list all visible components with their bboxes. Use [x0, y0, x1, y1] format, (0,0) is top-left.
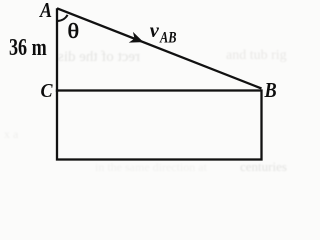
- svg-text:x a: x a: [4, 127, 19, 141]
- svg-text:θ: θ: [68, 19, 80, 42]
- svg-text:AB: AB: [159, 29, 176, 47]
- svg-text:B: B: [264, 78, 277, 102]
- svg-text:centuries: centuries: [240, 159, 287, 174]
- svg-text:and tub rig: and tub rig: [226, 48, 287, 63]
- svg-text:A: A: [38, 0, 52, 22]
- arrowhead on AB: [129, 32, 146, 48]
- wire: diagonal A to B: [57, 8, 262, 88]
- svg-text:36 m: 36 m: [9, 33, 47, 60]
- rectangle CB box: [57, 91, 262, 160]
- wire: vertical line A to C: [56, 8, 58, 92]
- svg-text:v: v: [150, 20, 160, 42]
- svg-text:C: C: [41, 80, 54, 102]
- angle arc at A: [57, 15, 68, 21]
- svg-text:rect of the dis: rect of the dis: [58, 49, 140, 65]
- svg-text:in the same direction at: in the same direction at: [95, 160, 208, 174]
